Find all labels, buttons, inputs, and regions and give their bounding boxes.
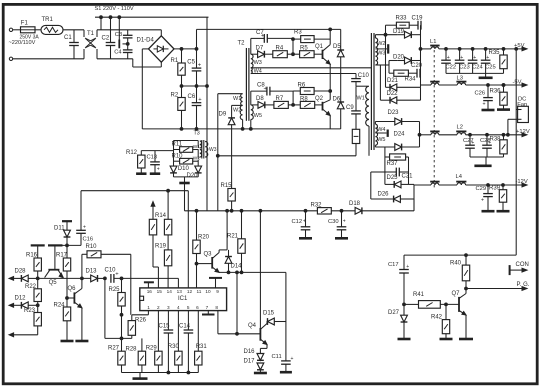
svg-text:C23: C23 (459, 65, 470, 71)
svg-text:R29: R29 (146, 345, 158, 351)
wire Q1 emitter down / node X (329, 64, 331, 100)
svg-text:W2: W2 (193, 156, 201, 162)
svg-text:+: + (481, 198, 484, 204)
wire row down to pin8 line (236, 272, 238, 333)
svg-text:L3: L3 (457, 75, 463, 81)
HV+ rail to switchers (197, 29, 341, 49)
svg-text:R11: R11 (172, 142, 183, 148)
wire R23 leads (37, 305, 39, 335)
bank ground bus (122, 372, 199, 374)
resistor R35 (489, 50, 508, 68)
wire R7 to R8 (288, 104, 300, 106)
svg-text:R20: R20 (198, 234, 210, 240)
wire D8 to R7 (265, 104, 274, 106)
ground C11 (280, 371, 292, 374)
svg-text:C15: C15 (159, 324, 171, 330)
diode D27 (388, 310, 407, 322)
wire D17 to ground (259, 370, 261, 372)
T3 winding W1 (200, 141, 202, 148)
resistor R7 (274, 96, 288, 108)
wire R24 leads (66, 298, 68, 340)
svg-text:TR1: TR1 (42, 17, 54, 23)
svg-text:+: + (343, 218, 346, 224)
svg-text:13: 13 (177, 289, 183, 294)
capacitor C7 (256, 30, 267, 43)
svg-text:D11: D11 (54, 225, 65, 231)
resistor R33 (396, 16, 410, 29)
wire node to -5 branch (420, 61, 422, 88)
wire D20 to node (397, 60, 420, 62)
diode D11 symbol (54, 225, 70, 237)
capacitor C30 (electrolytic) (328, 211, 346, 238)
diode D8 (256, 96, 265, 108)
junction R7/R8/C8 (292, 104, 295, 107)
svg-text:1: 1 (147, 305, 150, 310)
junction mid S1 (206, 85, 209, 88)
wire R6 branch (293, 90, 330, 92)
svg-text:C1: C1 (64, 35, 72, 41)
inductor L1 (common choke) (430, 39, 440, 49)
wire emitter row down to D15 (285, 272, 287, 321)
junction Q1 collector rail (329, 28, 332, 31)
ground R39 (497, 210, 510, 213)
junction bus C14 (187, 371, 190, 374)
ground C30 (335, 237, 348, 240)
capacitor C20 (411, 63, 423, 78)
svg-text:T3: T3 (194, 131, 200, 137)
wire C14 bottom (187, 333, 189, 372)
junction D28/R16/R22 (36, 277, 39, 280)
svg-text:7: 7 (206, 305, 209, 310)
resistor R42 (431, 315, 450, 334)
capacitor C1 (64, 30, 79, 59)
svg-text:R27: R27 (108, 345, 120, 351)
wire S1 vertical to T3 area (206, 17, 208, 211)
wire W3 top to D7 (251, 53, 258, 55)
wire R16 leads (37, 245, 39, 278)
svg-text:Fan: Fan (517, 102, 527, 108)
resistor R10 (T3) (172, 154, 193, 164)
label W1 (T3) (193, 144, 201, 150)
label W3 (T3) (209, 147, 217, 153)
svg-text:+: + (483, 102, 486, 108)
junction C30 rail (340, 209, 343, 212)
junction C22 top (445, 48, 448, 51)
wire D19 to +5 node (397, 25, 420, 60)
diode D7 (256, 45, 265, 57)
junction C27 top (469, 133, 472, 136)
resistor R37 (387, 154, 406, 167)
wire R13 to pin15 (153, 235, 158, 288)
svg-text:C24: C24 (472, 65, 483, 71)
junction S1 rail a (100, 16, 103, 19)
svg-text:R10: R10 (86, 244, 98, 250)
label W4 (T2) (254, 69, 262, 75)
wire Q4 emitter to D16 (260, 345, 267, 354)
svg-text:R8: R8 (300, 96, 308, 102)
wire D22 anode up (397, 87, 421, 100)
svg-text:16: 16 (147, 289, 153, 294)
transformer T3 core (202, 140, 204, 159)
dashed common-core line (433, 45, 435, 188)
wire R12 bottom (140, 168, 142, 173)
junction mid a (180, 85, 183, 88)
wire bridge plus (174, 48, 197, 50)
secondary winding W4 (375, 124, 377, 132)
ground D27 (398, 338, 411, 341)
choke winding -5 (430, 82, 439, 85)
-12V rail (414, 179, 528, 187)
switch S1 contact (119, 17, 127, 48)
resistor R21 (227, 234, 245, 254)
svg-text:R1: R1 (171, 58, 179, 64)
wire D27 leads (403, 304, 405, 338)
resistor R12 (126, 150, 145, 168)
svg-text:C3: C3 (115, 32, 122, 38)
resistor R26 (128, 317, 147, 335)
junction R17/R24 (66, 297, 69, 300)
diode D11 (62, 221, 72, 231)
diode D26 (378, 191, 401, 202)
junction S1 rail c (118, 16, 121, 19)
capacitor C14 (179, 324, 193, 333)
wire R21 top (241, 211, 243, 239)
junction Q3 base tap (195, 262, 198, 265)
wire R27 bottom (121, 365, 123, 373)
svg-text:-5V: -5V (513, 80, 522, 86)
svg-text:Q6: Q6 (68, 286, 77, 292)
wire Q3 emitter row (219, 271, 286, 273)
resistor R10 (feedback) (86, 244, 102, 258)
wire D14 leads (228, 250, 230, 273)
-5V rail (421, 80, 528, 87)
svg-text:15: 15 (157, 289, 163, 294)
svg-text:+12V: +12V (516, 129, 530, 135)
capacitor C22 (electrolytic) (441, 49, 456, 74)
svg-text:6: 6 (196, 305, 199, 310)
svg-text:3: 3 (167, 305, 170, 310)
wire Q7 collector (465, 289, 467, 294)
wire +5 gnd bus (446, 72, 504, 74)
diode D22 (387, 91, 399, 103)
label W3 (sec) (377, 51, 385, 57)
wire R35 leads (503, 49, 505, 74)
T3 W3 taps (205, 142, 207, 158)
svg-text:R39: R39 (489, 186, 501, 192)
svg-text:C4: C4 (114, 49, 122, 55)
svg-text:R28: R28 (126, 347, 138, 353)
svg-text:+: + (447, 55, 450, 61)
svg-text:C8: C8 (257, 83, 265, 89)
svg-text:D16: D16 (244, 349, 256, 355)
junction R14 rail (167, 189, 170, 192)
wire W5 top to D8 (251, 104, 258, 106)
resistor R3 (294, 30, 314, 43)
label W1 (primary) (357, 96, 365, 102)
wire R42 leads (445, 304, 447, 338)
secondary winding W5 (375, 132, 377, 145)
junction R38 top (502, 133, 505, 136)
junction aux top (515, 48, 518, 51)
svg-text:R31: R31 (196, 344, 208, 350)
HV- rail (142, 128, 340, 130)
svg-text:C11: C11 (272, 354, 282, 360)
svg-text:R4: R4 (276, 45, 284, 51)
svg-text:W4: W4 (377, 127, 385, 133)
svg-text:2: 2 (157, 305, 160, 310)
junction C24 top (471, 48, 474, 51)
wire Q7 emitter (465, 315, 467, 338)
svg-text:R37: R37 (387, 161, 399, 167)
wire W5 bottom to D24 (375, 145, 394, 147)
svg-text:R32: R32 (311, 202, 323, 208)
junction D12/R22/R23 (36, 304, 39, 307)
wire pin6 to R31 (197, 311, 199, 352)
svg-text:C19: C19 (412, 16, 424, 22)
junction Q3 collector rail (226, 209, 229, 212)
svg-text:D6: D6 (333, 96, 341, 102)
T2 winding W2 (240, 105, 242, 119)
wire W2 top to D19 (375, 35, 397, 38)
capacitor C27 (electrolytic) (463, 135, 475, 157)
wire D21 anode to -5 node (397, 86, 421, 88)
wire R30 bottom (177, 365, 179, 373)
svg-text:14: 14 (167, 289, 173, 294)
svg-text:D15: D15 (263, 311, 275, 317)
capacitor C13 (147, 151, 160, 173)
svg-text:D20: D20 (187, 173, 199, 179)
capacitor C29 (electrolytic) (476, 185, 493, 210)
transistor Q5 (rotated) (45, 245, 64, 285)
CON input (510, 262, 529, 275)
svg-text:D23: D23 (388, 110, 400, 116)
wire R4 to R5 (287, 53, 299, 55)
junction C3 C4 midpoint (126, 43, 129, 46)
wire W1/W2 junction to D9 (232, 105, 243, 118)
label W1 (T2) (233, 96, 241, 102)
svg-text:Q1: Q1 (315, 44, 324, 50)
wire C5/C6 midpoint (182, 85, 209, 87)
transformer T2 core (246, 48, 249, 121)
supply bar Q5 (48, 244, 63, 246)
resistor R2 (171, 92, 186, 110)
inductor L3 (456, 75, 466, 85)
svg-text:W1: W1 (357, 96, 365, 102)
svg-text:R24: R24 (54, 302, 66, 308)
wire R3 branch (293, 38, 330, 40)
svg-text:+: + (198, 62, 202, 68)
svg-text:C13: C13 (147, 154, 158, 160)
junction C23 top (458, 48, 461, 51)
resistor R15 (221, 183, 236, 201)
svg-text:4: 4 (177, 305, 180, 310)
svg-text:Q3: Q3 (204, 251, 213, 257)
diode D10 (170, 166, 189, 173)
junction R42 tap (445, 303, 448, 306)
ground R24 (61, 340, 74, 343)
junction R6 right (329, 90, 332, 93)
T2 winding W3 (251, 54, 253, 68)
svg-text:P. G.: P. G. (517, 282, 530, 288)
wire D26 row (371, 198, 414, 200)
svg-text:+: + (460, 55, 463, 61)
svg-text:T1: T1 (87, 31, 95, 37)
wire R20 to pin11 (196, 254, 198, 288)
svg-text:R40: R40 (450, 261, 462, 267)
diode D5 symbol (333, 44, 344, 57)
wire R10 row (82, 254, 131, 314)
svg-text:D25: D25 (387, 175, 399, 181)
svg-text:W2: W2 (233, 108, 241, 114)
wire rail to pin12 (187, 191, 189, 288)
svg-text:+: + (406, 264, 409, 270)
wire C8 branch (251, 91, 293, 105)
svg-text:C16: C16 (83, 237, 94, 243)
svg-text:5: 5 (187, 305, 190, 310)
svg-text:+: + (473, 55, 476, 61)
wire D24 to node (402, 146, 420, 148)
wire W4 top to D23 (375, 122, 394, 125)
junction R21 row (240, 271, 243, 274)
transistor Q7 (452, 291, 467, 315)
label W2 (T2) (233, 108, 241, 114)
svg-text:Q5: Q5 (49, 280, 58, 286)
aux output arrow 3 (9, 333, 38, 337)
label W2 (sec) (377, 41, 385, 47)
wire D6 to HV- rail (340, 109, 342, 129)
wire D28 to column (28, 277, 38, 279)
T3 winding W2 (200, 150, 202, 158)
svg-text:C5: C5 (187, 59, 195, 65)
junction R36 top (502, 84, 505, 87)
ground +12 bus (474, 165, 491, 168)
wire Q3 collector up (219, 211, 227, 253)
svg-text:+: + (303, 218, 306, 224)
capacitor C17 (electrolytic) (388, 255, 409, 304)
ground flag pins 9/10 (209, 278, 222, 288)
capacitor C28 (electrolytic) (480, 135, 492, 157)
junction R2 bottom (180, 127, 183, 130)
capacitor C12 (electrolytic) (292, 211, 311, 238)
svg-text:W5: W5 (377, 137, 385, 143)
capacitor C19 (412, 16, 424, 30)
wire pin1 jog (132, 311, 149, 321)
svg-text:D20: D20 (393, 55, 405, 61)
svg-text:D13: D13 (86, 269, 98, 275)
wire R36 leads (503, 85, 505, 109)
svg-text:C25: C25 (485, 65, 496, 71)
wire R31 bottom (197, 365, 199, 373)
junction R15 bottom (230, 209, 233, 212)
AC input terminal bottom (9, 57, 12, 60)
resistor R6 (298, 82, 315, 94)
wire R38 leads (503, 135, 505, 157)
wire R28 bottom (141, 365, 143, 373)
AC input terminal top (9, 28, 12, 31)
svg-text:D10: D10 (178, 166, 190, 172)
diode D28 (15, 269, 29, 282)
label W3 (T2) (254, 60, 262, 66)
thermistor TR1 (41, 17, 63, 34)
wire pin8 to Q4 (218, 311, 260, 334)
wire R25 leads (121, 278, 123, 338)
wire S1 selector rail (95, 16, 209, 18)
label T3 (194, 131, 200, 137)
aux output arrow 2 (9, 303, 21, 307)
transistor Q1 (315, 44, 330, 64)
junction W5 bottom (249, 127, 252, 130)
junction C17/D27/R41 (403, 303, 406, 306)
diode D13 (86, 269, 98, 282)
wire D25 anode to -12 (401, 184, 414, 210)
wire pin3 to C15 (167, 311, 169, 330)
diode D6 (333, 96, 345, 109)
wire TR1 to T1 (63, 29, 84, 31)
svg-text:C6: C6 (188, 94, 196, 100)
wire S1 drop a (100, 17, 102, 30)
capacitor C25 (electrolytic) (481, 49, 496, 74)
ground bank (133, 373, 148, 379)
svg-text:C29: C29 (476, 186, 487, 192)
transformer T3 frame (174, 141, 199, 167)
resistor R20 (193, 234, 210, 253)
svg-text:12: 12 (187, 289, 193, 294)
resistor R41 (413, 292, 440, 308)
wire rail to R14 (167, 191, 169, 220)
wire Q3 base (197, 263, 213, 265)
wire D21 feed vertical (386, 35, 391, 88)
wire D15 anode (274, 321, 286, 323)
resistor R1 (171, 58, 186, 75)
wire pin13 stub (177, 278, 179, 288)
junction +12 takeoff (418, 133, 421, 136)
junction pin8/row vert (236, 332, 239, 335)
capacitor C10 (PWM) (105, 268, 120, 283)
fuse F1 (20, 20, 40, 40)
svg-text:R17: R17 (56, 252, 68, 258)
diode D12 (15, 296, 29, 309)
wire W3/W4 junction long wire (251, 67, 372, 69)
T2 winding W5 (251, 105, 253, 120)
wire C10 to primary top (356, 82, 368, 87)
svg-text:R26: R26 (135, 317, 147, 323)
svg-text:D26: D26 (378, 191, 390, 197)
svg-text:R3: R3 (294, 30, 302, 36)
wire supply to D11 joint (63, 244, 82, 246)
transistor Q2 (315, 96, 330, 116)
junction C5 top (195, 48, 198, 51)
svg-text:C22: C22 (446, 65, 457, 71)
T3 bottom wire (174, 166, 199, 177)
junction R33 branch (384, 33, 387, 36)
ground +5 bus (479, 73, 493, 77)
DC fan connector (508, 97, 528, 135)
wire snubber right (399, 157, 408, 184)
label W5 (sec) (377, 137, 385, 143)
wire AC line top (13, 29, 21, 31)
resistor R4 (273, 45, 288, 57)
wire D9 to R15 (231, 125, 233, 189)
ground C29 (482, 210, 495, 213)
resistor R11 (T3) (172, 142, 193, 153)
svg-text:R14: R14 (155, 213, 167, 219)
Vref arrow (151, 202, 155, 220)
wire R5 to Q1 base (314, 53, 322, 55)
svg-text:C12: C12 (292, 219, 303, 225)
svg-text:250V 3A: 250V 3A (20, 35, 40, 41)
svg-text:W3: W3 (209, 147, 217, 153)
svg-text:C7: C7 (256, 30, 264, 36)
